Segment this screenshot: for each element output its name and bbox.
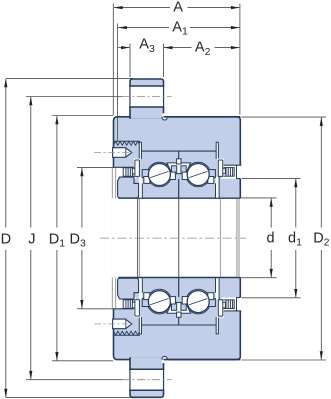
top hole (114, 140, 141, 142)
center bowtie white (167, 163, 191, 174)
svg-text:J: J (28, 231, 35, 247)
ball pockets (147, 162, 172, 187)
fix bottom ball highlight direction (150, 298, 208, 305)
svg-text:D: D (1, 231, 11, 247)
spring comb right (223, 168, 234, 177)
top lug boss (130, 79, 164, 118)
svg-text:d: d (267, 230, 275, 246)
housing main block (114, 117, 241, 360)
left pocket white (119, 167, 136, 178)
center stem slot (177, 159, 181, 164)
dimension D (flange outside diameter) with extension lines and arrows (4, 78, 133, 397)
svg-text:A: A (173, 0, 183, 15)
housing/washer gap channel left (140, 142, 142, 159)
dimension J (bolt circle diameter) with extension lines and arrows (26, 97, 122, 380)
spring comb left (123, 168, 134, 177)
cage boxes (144, 177, 150, 184)
white gaps beside shaft washers (139, 177, 142, 198)
dimension d1 with extension lines and arrows (242, 178, 301, 297)
washer blob left (118, 177, 139, 198)
dimension A1, extension line and arrows (118, 24, 240, 142)
housing washer centre joint (178, 151, 180, 159)
balls (148, 164, 170, 186)
dimension A (overall width), extension lines and arrows (113, 4, 240, 116)
dimension D3 (face recess diameter) with extension lines and arrows (77, 167, 112, 308)
shoulders (142, 170, 149, 178)
bottom hole (114, 334, 141, 336)
redraw top edges next to boss grooves (164, 116, 241, 118)
T slot + strip left (134, 159, 140, 177)
right notch + pocket white (222, 165, 242, 178)
center joint (178, 179, 180, 198)
dimension d (bore diameter) with extension lines and arrows (237, 198, 277, 278)
hide body top edge under boss (131, 115, 163, 119)
dimension D2 (housing outside diameter) with extension lines and arrows (241, 117, 326, 360)
groove circles at boss base (162, 115, 167, 120)
housing/washer gap channel right (216, 142, 218, 159)
dimension A3 (boss width), extension lines and outside arrow (118, 44, 163, 78)
housing washer joint line (142, 150, 217, 152)
dimension D1 with extension lines and arrows (52, 116, 113, 361)
dimension A2 with arrows (164, 46, 240, 49)
T slot + strip right (218, 159, 224, 177)
right face below notch (237, 178, 241, 180)
bottom lug boss (130, 358, 164, 397)
